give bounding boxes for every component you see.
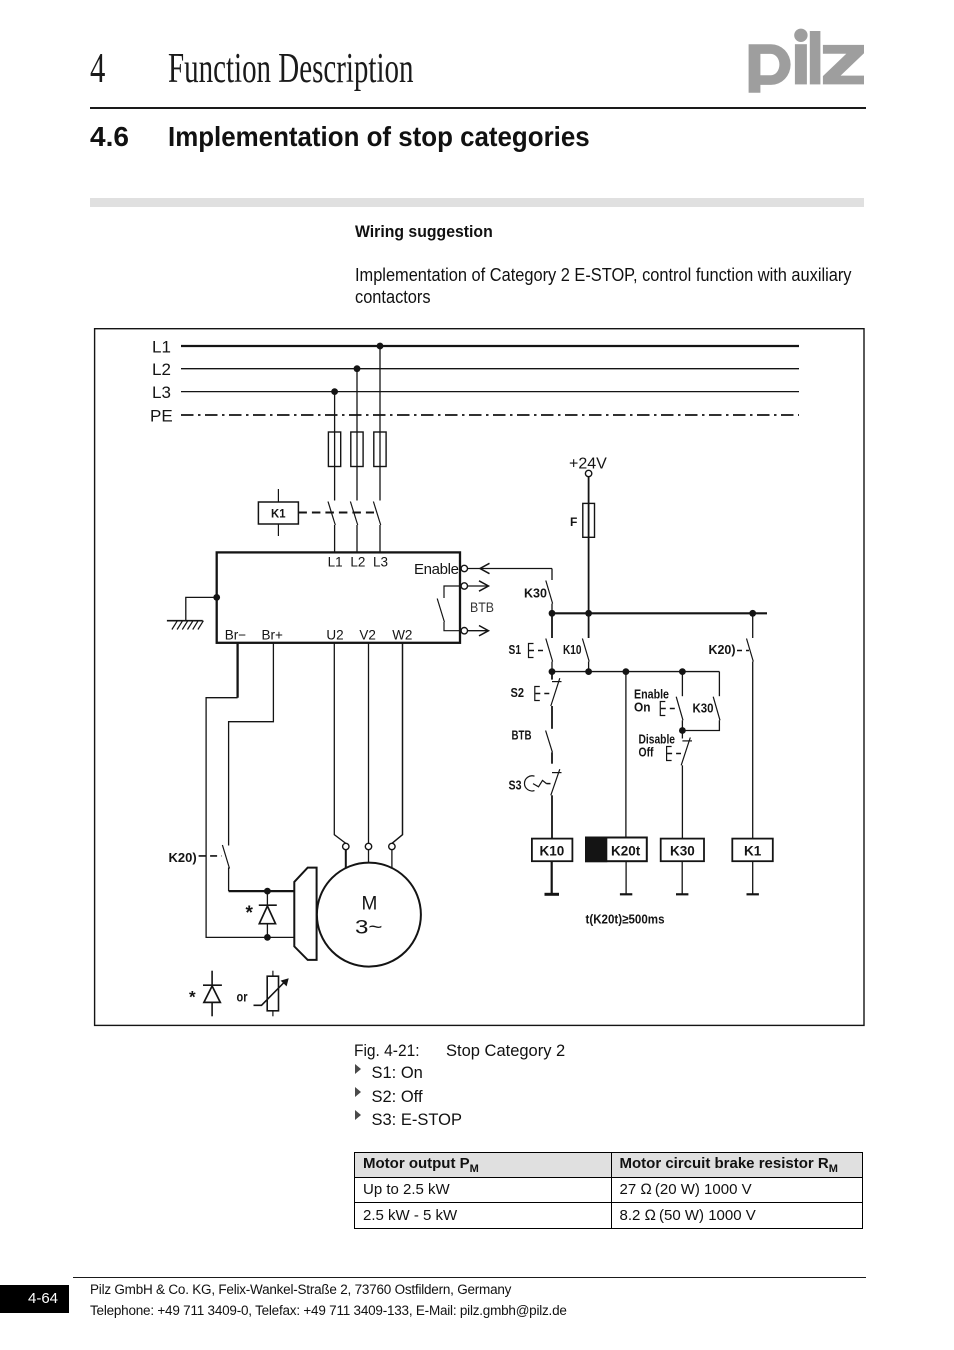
svg-text:K20): K20): [709, 642, 736, 657]
terminal BTB out 2: [461, 628, 467, 634]
svg-text:K1: K1: [744, 844, 762, 859]
svg-text:M: M: [362, 894, 378, 915]
contact BTB (feedback, NO): [512, 729, 553, 764]
contact K20 (brake release): [222, 845, 229, 891]
svg-text:L2: L2: [152, 360, 171, 379]
contact K30 (self holding, NO): [682, 672, 720, 731]
svg-text:Br−: Br−: [225, 627, 247, 642]
label Disable Off with actuator: [639, 733, 682, 761]
junction bus2 S-chain: [549, 668, 556, 675]
svg-text:K30: K30: [693, 701, 714, 716]
svg-text:*: *: [189, 988, 196, 1007]
svg-text:S2: S2: [511, 685, 525, 700]
svg-text:K10: K10: [540, 844, 565, 859]
wire BTB output 2 with right arrowhead: [468, 626, 489, 636]
motor lead W: [391, 849, 393, 875]
mechanical link K1 (dashed): [298, 512, 374, 514]
wire V2 to motor: [368, 643, 370, 844]
junction bus1 right: [749, 610, 756, 617]
chapter title: [168, 45, 413, 93]
motor M 3~: [317, 863, 421, 967]
footer address: [90, 1279, 567, 1321]
contact K30 (enable feedback): [524, 569, 553, 614]
fuse F1 (phase 1): [328, 432, 340, 467]
junction bus1 mid: [585, 610, 592, 617]
contact Enable-On (NO): [676, 672, 683, 731]
legend diode symbol: [203, 971, 222, 1017]
svg-text:*: *: [246, 903, 254, 924]
wire BTB output 1 with right arrowhead: [468, 581, 489, 591]
intro paragraph: [355, 264, 852, 309]
section title: [168, 121, 590, 153]
wire K20t coil drop: [625, 672, 627, 838]
contactor contact K1 phase 3: [373, 502, 380, 553]
BTB relay contact inside drive: [437, 586, 461, 631]
svg-text:W2: W2: [392, 627, 412, 642]
contact S1 (On button): [546, 613, 553, 671]
node PE rail: [150, 407, 799, 426]
coil K30: [661, 839, 704, 895]
svg-text:BTB: BTB: [470, 599, 494, 615]
fuse F3 (phase 3): [374, 432, 386, 467]
junction bus2 enable-branch: [679, 668, 686, 675]
fuse F2 (phase 2): [351, 432, 363, 467]
label S1 with actuator: [509, 642, 547, 658]
svg-text:K30: K30: [670, 844, 695, 859]
svg-text:L3: L3: [152, 383, 171, 402]
wire L1 phase drop: [379, 346, 381, 501]
junction brake upper: [264, 888, 271, 895]
junction bus2 K20t: [623, 668, 630, 675]
table: [354, 1152, 863, 1229]
svg-text:L1: L1: [328, 555, 343, 570]
svg-text:K1: K1: [271, 507, 286, 521]
node L2 rail: [152, 360, 799, 379]
svg-text:or: or: [237, 990, 249, 1005]
svg-text:L2: L2: [350, 555, 365, 570]
svg-text:PE: PE: [150, 407, 173, 426]
junction bus1 left: [549, 610, 556, 617]
junction on L3: [331, 388, 338, 395]
gray separator bar: [90, 198, 864, 207]
junction bus2 K10coil: [585, 668, 592, 675]
Wiring suggestion heading: [355, 222, 493, 242]
label S3 with E-STOP actuator: [509, 776, 552, 793]
svg-text:Disable: Disable: [639, 733, 676, 747]
label K20 with actuator dashes: [169, 850, 223, 865]
bus rail 1: [552, 612, 767, 614]
node L1 rail: [152, 338, 799, 357]
junction on L1: [377, 343, 384, 350]
svg-text:Br+: Br+: [262, 627, 284, 642]
terminal Enable: [461, 565, 467, 571]
motor terminal U: [343, 843, 349, 849]
coil K10: [532, 839, 573, 895]
svg-text:F: F: [570, 515, 577, 529]
chapter number 4: [90, 45, 105, 93]
svg-text:t(K20t)≥500ms: t(K20t)≥500ms: [586, 912, 665, 927]
wire to ground: [186, 597, 217, 620]
fuse F (control): [570, 503, 595, 537]
bullet list: [355, 1064, 358, 1120]
wire L3 phase drop: [334, 392, 336, 501]
svg-text:S1: S1: [509, 642, 522, 657]
svg-text:L3: L3: [373, 555, 388, 570]
svg-text:On: On: [634, 701, 651, 715]
legend varistor symbol: [254, 971, 289, 1017]
pilz logo: [749, 29, 864, 93]
wire brake supply upper: [229, 890, 295, 892]
node L3 rail: [152, 383, 799, 402]
motor lead V: [368, 849, 370, 875]
label K20 with actuator dashes: [709, 642, 750, 657]
contact S3 (E-STOP, NC): [551, 769, 562, 838]
footer page-number block: [0, 1285, 69, 1313]
wire Br+ upper: [229, 643, 274, 846]
ground (earth) symbol: [167, 621, 204, 630]
motor terminal V: [365, 843, 371, 849]
label S2 with actuator: [511, 685, 552, 701]
svg-text:Off: Off: [639, 746, 655, 760]
terminal +24V: [585, 470, 591, 476]
svg-text:3~: 3~: [355, 918, 383, 939]
drive unit box: [217, 552, 460, 642]
svg-text:Enable: Enable: [414, 561, 459, 578]
wire 24V supply: [588, 477, 590, 614]
label Enable On with actuator: [634, 688, 676, 716]
brake pad symbol: [294, 868, 316, 960]
footer rule: [73, 1277, 866, 1278]
svg-text:K10: K10: [563, 642, 582, 657]
terminal BTB out 1: [461, 583, 467, 589]
svg-text:K20t: K20t: [611, 844, 641, 859]
motor terminal W: [389, 843, 395, 849]
svg-text:K20): K20): [169, 850, 197, 865]
junction on L2: [354, 365, 361, 372]
contact S2 (Off button, NC): [551, 672, 562, 729]
coil K20t (timer): [586, 838, 647, 895]
suppressor diode across brake: [259, 891, 277, 937]
svg-text:S3: S3: [509, 778, 522, 793]
wire Br- to brake: [206, 643, 294, 938]
svg-text:BTB: BTB: [512, 729, 532, 743]
section number 4.6: [90, 121, 129, 153]
motor lead U: [345, 849, 347, 875]
coil K1: [732, 839, 773, 895]
junction brake lower: [264, 934, 271, 941]
wire W2 to motor: [392, 643, 403, 844]
contactor contact K1 phase 2: [350, 502, 357, 553]
svg-text:V2: V2: [359, 627, 376, 642]
svg-text:L1: L1: [152, 338, 171, 357]
bus rail 2: [552, 671, 719, 673]
junction enable/disable node: [679, 727, 686, 734]
figure caption: [354, 1042, 420, 1061]
ground junction on drive box: [213, 594, 220, 601]
contactor contact K1 phase 1: [328, 502, 335, 553]
coil K1 (main contactor): [258, 489, 298, 536]
contact Disable-Off (NC): [681, 731, 692, 839]
contact K20 (to K1 coil): [747, 613, 754, 838]
svg-text:Enable: Enable: [634, 688, 669, 702]
svg-text:U2: U2: [326, 627, 343, 642]
wire U2 to motor: [334, 643, 346, 844]
svg-text:K30: K30: [524, 586, 547, 601]
header rule: [90, 107, 866, 109]
figure frame: [95, 329, 864, 1026]
wire L2 phase drop: [356, 369, 358, 501]
contact K10 (bus1 to bus2): [563, 613, 589, 671]
wire enable input with left arrowhead: [468, 563, 553, 573]
